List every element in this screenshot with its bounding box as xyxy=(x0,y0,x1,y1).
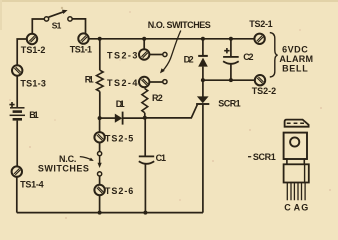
battery B1 xyxy=(9,102,25,119)
N.C. contact upper xyxy=(98,152,102,156)
svg-text:G: G xyxy=(301,202,308,212)
wire TS1-2 up to S1 left contact xyxy=(32,19,44,34)
wire mid node to TS2-2 xyxy=(203,79,255,81)
stub rail down to TS2-3 xyxy=(143,39,145,50)
terminal TS2-3 xyxy=(139,49,149,59)
wire TS2-4 down to R2 xyxy=(144,87,146,89)
svg-text:TS2-1: TS2-1 xyxy=(249,19,272,29)
svg-text:TS2-6: TS2-6 xyxy=(105,186,133,196)
terminal TS1-3 xyxy=(12,65,22,75)
annotation arrow to N.C. contacts xyxy=(80,157,94,161)
svg-text:C: C xyxy=(284,202,291,212)
wire top rail TS1-1 to TS2-1 xyxy=(89,38,255,40)
N.O. contact upper xyxy=(163,52,167,56)
annotation arrow to N.O. contacts xyxy=(160,31,181,74)
svg-text:TS1-2: TS1-2 xyxy=(21,45,46,55)
svg-text:6VDC: 6VDC xyxy=(282,45,308,55)
terminal TS1-2 xyxy=(27,34,37,44)
svg-text:N.O. SWITCHES: N.O. SWITCHES xyxy=(148,20,211,30)
SCR1 package body xyxy=(284,133,307,159)
node junction rail/C2 xyxy=(229,37,233,41)
N.C. switch blade arrow xyxy=(98,156,102,168)
svg-text:SWITCHES: SWITCHES xyxy=(38,164,89,174)
SCR1 symbol xyxy=(196,96,209,104)
wire TS1-3 down to battery xyxy=(16,76,18,108)
capacitor C1 xyxy=(139,156,154,163)
N.C. contact lower xyxy=(98,172,102,176)
node junction rail/R1 xyxy=(98,37,102,41)
wire lower contact to TS2-6 xyxy=(99,176,101,185)
wire mid node down to SCR xyxy=(202,80,204,97)
svg-text:TS2-4: TS2-4 xyxy=(107,78,137,88)
wire rail down to R1 xyxy=(99,39,101,70)
svg-text:B1: B1 xyxy=(29,110,38,120)
node junction R2/C1/gate xyxy=(143,116,147,120)
terminal TS1-1 xyxy=(78,33,88,43)
label C A G xyxy=(284,202,308,212)
switch S1 xyxy=(44,10,72,21)
node junction D2/SCR/mid wire xyxy=(201,78,205,82)
capacitor C2 xyxy=(223,48,239,64)
node junction D1 anode xyxy=(98,116,102,120)
node junction C2/mid wire xyxy=(229,78,233,82)
wire TS2-4 to contact xyxy=(149,81,163,83)
stub rail down to D2 xyxy=(202,39,204,55)
label 6VDC alarm bell xyxy=(279,45,313,74)
wire D1 node down to TS2-5 xyxy=(99,118,101,132)
svg-text:TS1-3: TS1-3 xyxy=(20,79,46,89)
svg-text:TS2-5: TS2-5 xyxy=(105,134,133,144)
svg-text:TS2-2: TS2-2 xyxy=(252,86,276,96)
wire TS2-6 down to bottom rail xyxy=(99,195,101,213)
wire battery down to TS1-4 xyxy=(16,121,18,167)
svg-text:SCR1: SCR1 xyxy=(218,98,240,108)
node junction rail/D2 xyxy=(201,37,205,41)
wire TS1-2 left then down to TS1-3 xyxy=(17,39,27,66)
wire D1 to R2 node xyxy=(123,117,145,119)
svg-text:TS1-4: TS1-4 xyxy=(20,179,44,189)
wire S1 right contact down to TS1-1 xyxy=(72,19,85,34)
stub rail down to C2 xyxy=(230,39,232,57)
svg-text:R2: R2 xyxy=(152,93,163,103)
svg-text:TS2-3: TS2-3 xyxy=(107,50,137,60)
terminal TS2-2 xyxy=(255,75,265,85)
brace bell xyxy=(270,33,278,77)
annotation N.C. SWITCHES xyxy=(38,154,89,174)
wire C2 down to mid node xyxy=(230,64,232,81)
svg-text:C2: C2 xyxy=(243,52,253,62)
SCR1 package notch and base xyxy=(284,159,309,183)
terminal TS2-6 xyxy=(94,185,104,195)
svg-text:R1: R1 xyxy=(85,75,94,85)
svg-text:C1: C1 xyxy=(156,153,166,163)
svg-text:SCR1: SCR1 xyxy=(253,152,276,162)
terminal TS2-5 xyxy=(94,132,104,142)
svg-text:N.C.: N.C. xyxy=(59,154,76,164)
svg-text:S1: S1 xyxy=(52,21,62,31)
wire bottom rail xyxy=(17,212,203,214)
diode D2 xyxy=(198,56,208,67)
wire node to D1 xyxy=(100,117,115,119)
node junction C1/bottom rail xyxy=(143,211,147,215)
wire R2 to node xyxy=(144,113,146,118)
SCR1 package tab xyxy=(285,120,309,127)
svg-text:TS1-1: TS1-1 xyxy=(70,44,92,54)
node junction rail/TS2-3 xyxy=(142,37,146,41)
resistor R1 xyxy=(97,70,104,91)
svg-text:BELL: BELL xyxy=(282,64,308,74)
svg-text:A: A xyxy=(294,202,301,212)
terminal TS1-4 xyxy=(12,166,22,176)
wire SCR cathode down to bottom rail corner xyxy=(202,104,203,213)
SCR1 package legs xyxy=(287,183,305,201)
N.O. contact lower xyxy=(163,80,167,84)
node junction TS2-6/bottom rail xyxy=(98,211,102,215)
wire TS1-4 down to bottom-left corner xyxy=(16,177,18,213)
label SCR1 package xyxy=(248,152,276,162)
svg-text:D1: D1 xyxy=(116,99,125,109)
wire node down to C1 xyxy=(144,118,146,156)
terminal TS2-4 xyxy=(139,77,149,87)
wire TS2-5 to upper N.C. contact xyxy=(99,142,101,151)
wire D2 down to mid node xyxy=(202,67,204,81)
wire C1 down to bottom rail xyxy=(144,164,146,213)
wire TS2-3 to contact xyxy=(149,54,163,56)
diode D1 xyxy=(115,112,123,125)
wire gate line to SCR xyxy=(145,105,198,118)
terminal TS2-1 xyxy=(254,34,264,44)
svg-text:D2: D2 xyxy=(184,55,194,65)
wire R1 down to gate node xyxy=(99,91,101,118)
resistor R2 xyxy=(142,89,148,113)
